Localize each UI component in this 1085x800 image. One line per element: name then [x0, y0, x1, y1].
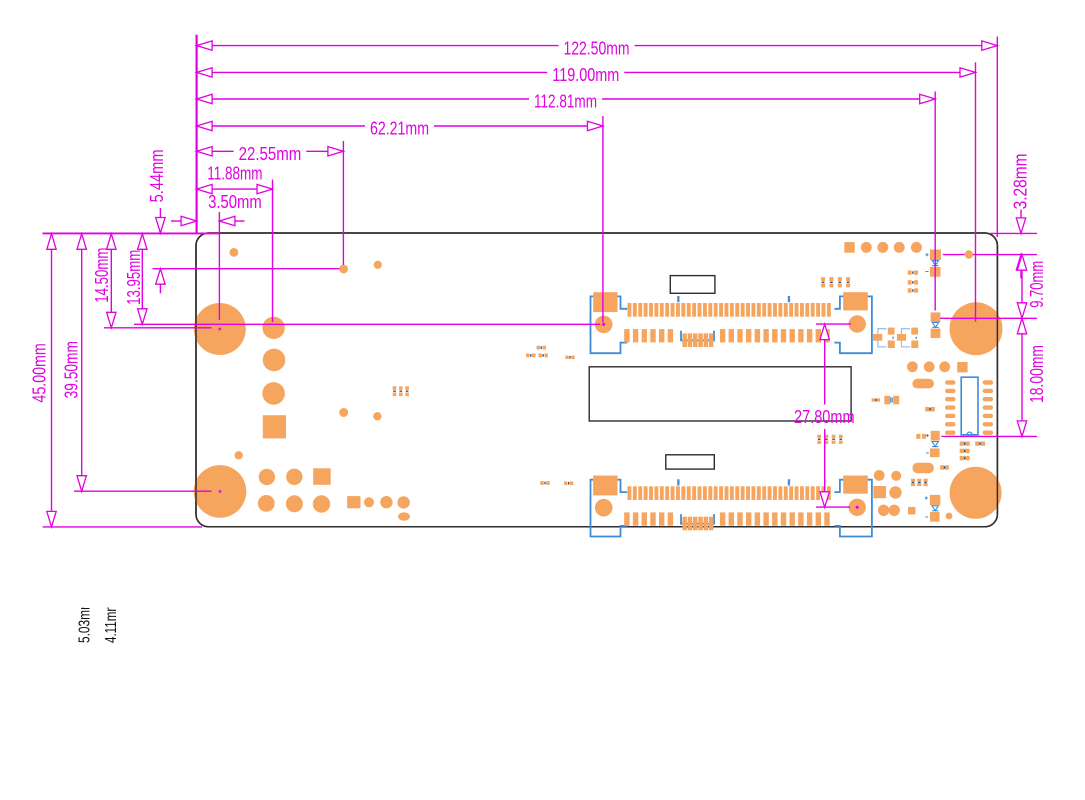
component pair above bottom-right circle: [940, 465, 944, 469]
bottom-right small circles: [878, 505, 889, 516]
mounting hole pad bottom-left large: [194, 465, 247, 518]
dimension 39.50mm vertical: [77, 234, 86, 250]
datum center dots: [602, 323, 605, 326]
black rotated text 5.03mm (clipped): [77, 600, 121, 643]
dimension 14.50mm vertical: [107, 234, 116, 250]
horizontal extension 5.44 at dot row: [153, 268, 340, 270]
extension line 22.55 right: [342, 141, 344, 265]
pad column left - circle 3: [262, 382, 285, 405]
fab rectangle above lower connector: [666, 455, 715, 469]
extension line 3.50 right: [218, 212, 220, 320]
4x2 tiny pad cluster left of 27.80 dimension lower: [817, 435, 821, 438]
svg-text:11.88mm: 11.88mm: [207, 163, 262, 183]
SOT-23 component Q1 with courtyard right-middle: [878, 329, 887, 347]
mounting hole pad top-left large: [194, 303, 246, 355]
three stacked 0402 components right of board middle: [908, 270, 912, 274]
connector J1 upper pin row 1 (38 pins): [628, 303, 632, 317]
connector J1 upper right round pad: [849, 315, 866, 332]
dimension 18.00mm vertical: [1017, 318, 1026, 334]
dimension 3.28mm vertical (outside arrows): [1020, 210, 1022, 218]
LED D1 top-right pads: [930, 250, 941, 261]
connector J2 lower pin row 1 (38 pins): [628, 486, 632, 500]
svg-text:62.21mm: 62.21mm: [370, 119, 429, 139]
capacitor C small pads left of upper connector: [537, 346, 540, 350]
extension line 62.21 right: [602, 116, 604, 323]
dimension 45.00mm vertical: [47, 234, 56, 250]
LED D2 polarity glyph: [932, 322, 938, 327]
dimension 122.50mm: [197, 41, 213, 50]
dimension 62.21mm: [197, 121, 213, 130]
bottom-right circle pad: [889, 486, 901, 498]
connector J2 lower left round pad: [595, 499, 613, 517]
extension line 119.00 right: [975, 62, 977, 321]
LED D2 right pads: [931, 312, 941, 322]
connector J1 upper blue U bracket middle of row 2: [681, 331, 714, 341]
pad column left - circle 2: [263, 349, 286, 372]
LED D3 pads mid-right: [916, 434, 920, 439]
oval pad 1 right side: [912, 379, 934, 389]
connector J1 upper short middle pins: [682, 333, 687, 347]
pad column left - square pad: [263, 415, 286, 438]
connector J2 lower pin row 2 (24 pins): [624, 512, 629, 525]
horizontal extension 14.50: [104, 327, 212, 329]
mounting hole pad bottom-right large: [950, 467, 1002, 519]
SOT-23 component Q2 with courtyard right-middle: [902, 329, 911, 347]
oval pad 2 right side: [912, 463, 934, 473]
dimension 22.55mm: [197, 147, 213, 156]
svg-text:39.50mm: 39.50mm: [61, 341, 81, 398]
dimension 112.81mm: [197, 94, 213, 103]
LED D4 pads bottom-right: [930, 495, 941, 505]
LED D1 polarity glyph: [932, 261, 938, 266]
horizontal extension 3.28 right: [943, 254, 1037, 256]
horizontal extension 13.95 long: [134, 323, 600, 325]
horizontal extension 45.00 bottom: [43, 526, 202, 528]
connector J2 lower blue silkscreen bracket left: [591, 480, 628, 537]
svg-text:4.11mm: 4.11mm: [103, 602, 120, 643]
IC U1 body outline (blue): [961, 377, 978, 435]
connector J1 upper pin-1 blue tick marks: [677, 296, 679, 302]
svg-text:119.00mm: 119.00mm: [552, 65, 619, 85]
fiducial dot pair upper-middle: [339, 265, 348, 274]
connector J2 lower right square pad: [843, 476, 868, 494]
dimension 27.80mm vertical: [820, 324, 829, 340]
pad row above IC U1: [907, 361, 918, 372]
horizontal extension 9.70 right: [940, 317, 1037, 319]
connector J2 lower short middle pins: [682, 517, 687, 531]
dimension 119.00mm: [197, 68, 213, 77]
component small pair below oval1: [925, 407, 929, 412]
svg-text:14.50mm: 14.50mm: [92, 248, 112, 303]
pad column left - circle 1: [262, 317, 284, 339]
connector J1 upper pin row 2 (24 pins): [624, 329, 629, 342]
svg-text:112.81mm: 112.81mm: [534, 92, 597, 112]
bottom-right square pad: [873, 486, 886, 498]
PCB board outline (Edge.Cuts): [196, 233, 997, 527]
3x2 tiny pad cluster bottom-right: [911, 479, 915, 482]
bottom-left pad group row1: [259, 469, 275, 485]
dot on 3.28 extension line: [965, 250, 973, 258]
fab rectangle above upper connector: [670, 276, 715, 294]
svg-text:3.28mm: 3.28mm: [1011, 153, 1031, 209]
bottom-left pad group row2: [258, 495, 275, 512]
dimension 5.44mm vertical (outside arrows): [159, 208, 161, 218]
capacitor pads left of lower connector: [540, 481, 543, 485]
4x2 tiny pad cluster above upper connector right: [821, 277, 825, 281]
horizontal extension 18.00 right: [942, 435, 1038, 437]
horizontal extension 27.80 top: [816, 323, 851, 325]
LED D4 polarity glyph: [932, 506, 938, 511]
connector J1 upper right square pad: [843, 292, 868, 310]
svg-text:122.50mm: 122.50mm: [564, 38, 630, 58]
svg-text:22.55mm: 22.55mm: [239, 144, 302, 164]
svg-text:27.80mm: 27.80mm: [794, 407, 855, 427]
dimension 9.70mm vertical: [1017, 255, 1026, 271]
small dot mid-left: [339, 408, 348, 417]
component R small pair left of IC: [872, 398, 875, 401]
svg-text:45.00mm: 45.00mm: [30, 343, 50, 402]
extension line 112.81 right: [934, 92, 936, 311]
extension line 122.50 right: [996, 37, 998, 237]
central module fab outline rectangle: [589, 367, 851, 421]
resistor array 3x2 tiny pads mid-left: [393, 386, 397, 390]
horizontal extension top-right at board edge: [990, 232, 1038, 234]
horizontal extension 39.50: [74, 490, 212, 492]
connector J2 lower pin-1 blue tick marks: [677, 479, 679, 485]
mounting hole pad top-right large: [950, 302, 1003, 355]
connector J2 lower blue silkscreen bracket right: [834, 480, 872, 537]
connector J1 upper blue silkscreen bracket right: [834, 296, 872, 353]
pairs below IC U1: [960, 441, 964, 445]
top-right pad row circles: [861, 242, 872, 253]
IC U1 left pads: [945, 380, 956, 384]
svg-text:18.00mm: 18.00mm: [1027, 345, 1047, 403]
svg-text:3.50mm: 3.50mm: [208, 192, 262, 212]
dimension 3.50mm (outside arrows): [171, 220, 181, 222]
svg-text:13.95mm: 13.95mm: [124, 250, 144, 305]
dimension 13.95mm vertical: [138, 234, 147, 250]
connector J1 upper left round pad: [595, 316, 613, 334]
top-right pad row square: [844, 242, 854, 253]
connector J2 lower left square pad: [593, 476, 617, 496]
extension line 11.88 right: [272, 180, 274, 323]
connector J1 upper blue silkscreen bracket left: [591, 296, 628, 353]
fiducial dot near top-left: [230, 248, 239, 257]
circles above lower connector right: [874, 470, 885, 481]
LED D3 polarity glyph: [932, 442, 938, 447]
horizontal extension 27.80 bottom: [816, 506, 850, 508]
connector J2 lower right round pad: [849, 499, 866, 516]
dimension 11.88mm: [197, 184, 213, 193]
svg-text:5.44mm: 5.44mm: [147, 149, 167, 202]
horizontal extension top-left at board edge: [43, 232, 220, 234]
extension line left datum vertical: [196, 35, 198, 233]
small dot above bottom-left circle: [235, 451, 243, 459]
IC U1 right pads: [983, 380, 994, 384]
svg-text:9.70mm: 9.70mm: [1027, 261, 1047, 308]
PCB board outline redrawn above pads: [196, 233, 997, 527]
connector J2 lower blue U bracket middle of row 2: [681, 514, 714, 524]
diode component with pads left of IC: [884, 396, 890, 405]
connector J1 upper left square pad: [593, 292, 617, 312]
